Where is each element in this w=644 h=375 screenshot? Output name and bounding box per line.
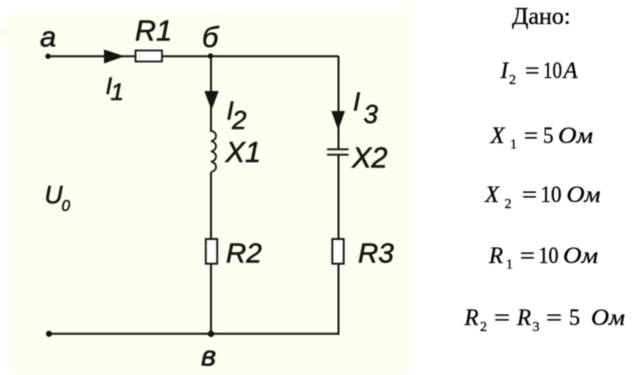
value R2 = R3 = 5 Ом [464,305,626,335]
svg-text:=: = [494,305,510,330]
svg-text:1: 1 [506,258,513,273]
resistor R3 [332,239,343,264]
wire X1 to R2 [210,172,212,239]
svg-text:R: R [488,243,503,268]
svg-text:X2: X2 [351,143,387,175]
svg-text:10: 10 [539,243,559,268]
svg-text:5: 5 [543,123,554,148]
node a [40,22,56,59]
svg-text:A: A [562,58,579,83]
wire R2 to в [210,264,212,334]
resistor R1 [136,51,163,62]
value I2 = 10 A [500,58,579,88]
svg-text:5: 5 [569,305,580,330]
svg-text:3: 3 [533,320,540,335]
value R1 = 10 Ом [488,243,598,273]
svg-text:10: 10 [543,58,562,83]
wire б to right corner [211,55,339,57]
svg-text:Ом: Ом [567,182,601,207]
current arrow I1 [104,50,125,64]
svg-text:=: = [525,58,540,83]
svg-text:=: = [520,243,535,268]
svg-text:R: R [464,305,479,330]
value X1 = 5 Ом [490,123,594,153]
svg-text:2: 2 [509,73,516,88]
svg-text:2: 2 [480,320,487,335]
wire a to R1 [48,55,135,57]
node б [202,22,220,59]
capacitor X2 [327,149,349,154]
svg-text:=: = [524,123,538,148]
label I1 [106,73,124,106]
label I3 [353,86,379,129]
svg-text:2: 2 [231,105,247,135]
label I2 [227,96,248,136]
inductor X1 [211,131,216,172]
wire R3 to bottom [338,264,340,335]
svg-text:3: 3 [364,99,379,129]
svg-text:Ом: Ом [563,243,598,268]
value X2 = 10 Ом [484,182,601,212]
svg-text:R3: R3 [358,238,394,269]
svg-text:1: 1 [510,138,517,153]
node в [201,331,216,373]
bottom wire [49,333,340,335]
wire б down to coil [210,56,212,132]
svg-text:б: б [202,22,220,54]
svg-text:в: в [201,341,216,373]
svg-text:X: X [484,182,500,207]
svg-text:X1: X1 [225,137,261,169]
svg-text:a: a [40,22,56,54]
svg-text:Дано:: Дано: [512,4,571,30]
svg-text:2: 2 [505,197,512,212]
current arrow I2 [204,91,218,110]
svg-text:R: R [516,305,531,330]
current arrow I3 [331,111,345,130]
svg-text:=: = [522,182,537,207]
svg-text:0: 0 [62,198,71,215]
wire right branch upper [338,56,340,149]
svg-text:I: I [353,86,360,116]
svg-text:1: 1 [111,79,124,106]
wire X2 to R3 [338,155,340,239]
wire R1 to б [162,55,211,57]
svg-text:R1: R1 [135,16,172,48]
svg-text:I: I [500,58,510,83]
svg-text:10: 10 [541,182,562,207]
svg-text:Ом: Ом [558,123,593,148]
svg-text:Ом: Ом [591,305,625,330]
svg-text:R2: R2 [226,238,262,269]
resistor R2 [206,239,217,264]
svg-text:X: X [490,123,506,148]
node bottom left [46,331,52,337]
svg-text:=: = [546,305,562,330]
label U0 [45,182,71,216]
